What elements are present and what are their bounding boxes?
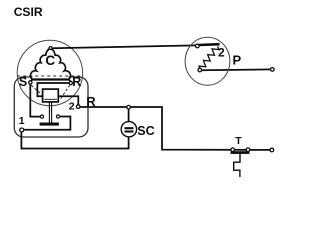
- svg-text:2: 2: [218, 46, 225, 60]
- svg-text:2: 2: [69, 100, 75, 112]
- svg-text:SC: SC: [137, 124, 154, 138]
- svg-text:P: P: [233, 53, 242, 68]
- svg-text:T: T: [235, 135, 242, 147]
- svg-text:S: S: [19, 75, 27, 89]
- svg-text:1: 1: [19, 115, 25, 127]
- svg-text:R: R: [86, 94, 96, 109]
- svg-text:R: R: [72, 75, 81, 89]
- svg-text:CSIR: CSIR: [14, 5, 43, 19]
- svg-text:C: C: [45, 53, 55, 68]
